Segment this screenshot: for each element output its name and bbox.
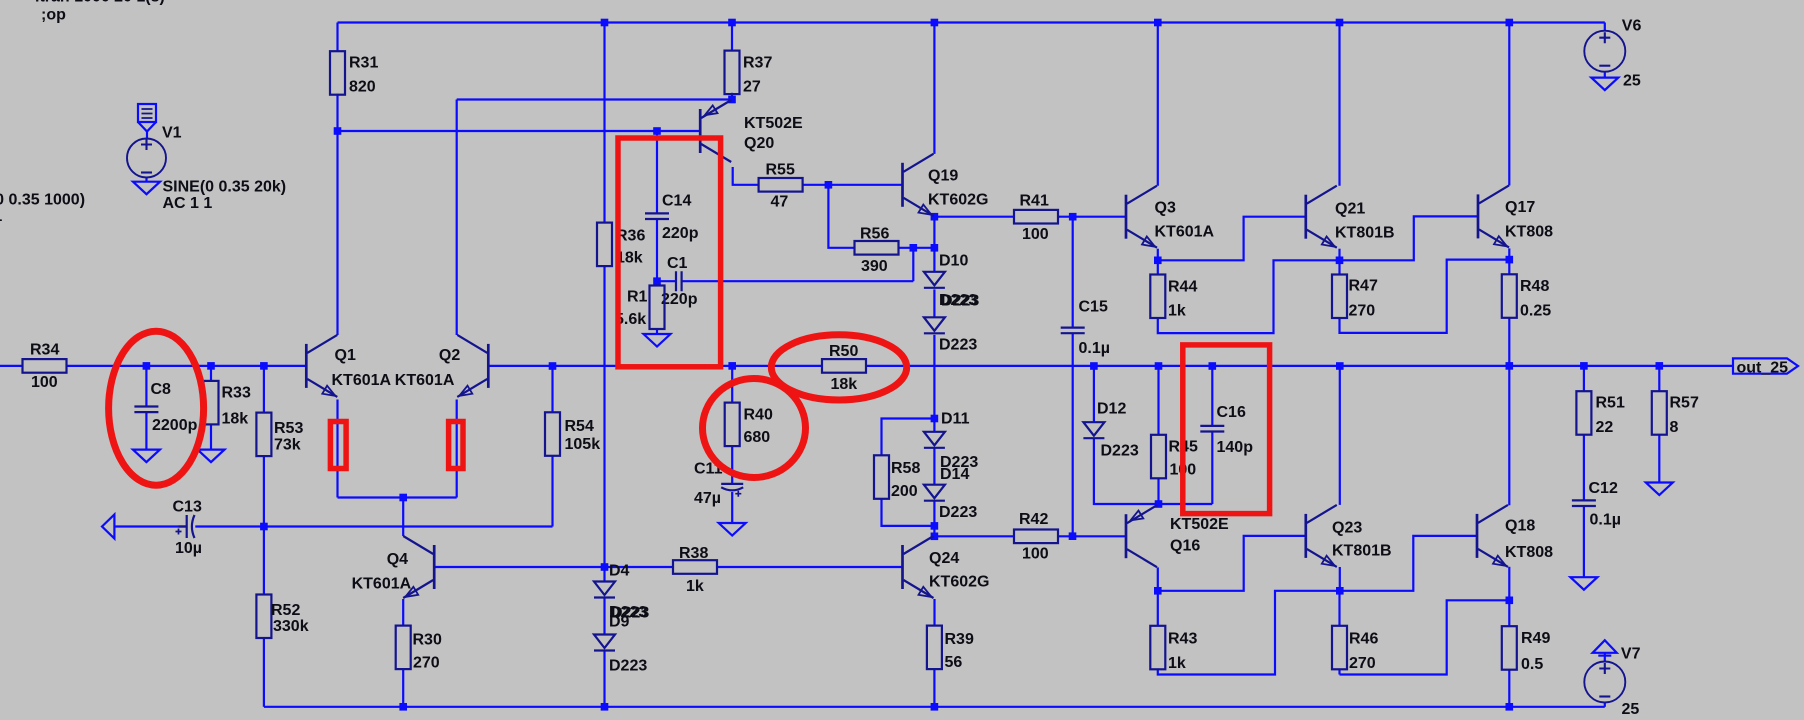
resistor R40 — [725, 403, 740, 447]
wire Q23 emitter stub — [1339, 567, 1341, 591]
wire Q3 emitter stub — [1157, 249, 1159, 261]
resistor R57 — [1652, 391, 1667, 435]
label 100 — [31, 374, 58, 391]
wire R48 top — [1508, 260, 1510, 275]
wire R44 bottom to Q21 emitter — [1158, 260, 1340, 333]
wire Q2 collector to Q20 emitter — [457, 98, 732, 100]
junction R39 / bottom rail — [931, 703, 939, 711]
svg-text:140p: 140p — [1217, 439, 1254, 456]
wire C16 top — [1211, 366, 1213, 426]
svg-text:D223: D223 — [939, 504, 977, 521]
svg-text:out_25: out_25 — [1737, 359, 1789, 376]
wire C8 top — [145, 366, 147, 407]
svg-text:Q24: Q24 — [929, 550, 959, 567]
junction R33 — [207, 362, 215, 370]
wire V6 top stub — [1604, 23, 1606, 32]
wire R57 to ground — [1658, 435, 1660, 483]
label AC 1 1 — [0, 208, 2, 225]
junction C14 tap — [653, 127, 661, 135]
wire D9 to bottom rail — [603, 651, 605, 707]
wire R33 top — [210, 366, 212, 381]
resistor R38 — [673, 560, 717, 574]
svg-text:V6: V6 — [1622, 18, 1642, 35]
resistor R56 — [855, 241, 899, 255]
svg-text:D9: D9 — [609, 614, 630, 631]
wire D12 top — [1093, 366, 1095, 422]
junction R56 / C1 — [910, 244, 918, 252]
svg-text:R49: R49 — [1521, 630, 1550, 647]
capacitor C8 — [134, 407, 158, 413]
resistor R33 — [204, 381, 219, 425]
svg-text:C14: C14 — [662, 193, 691, 210]
label out_25 — [1737, 359, 1789, 376]
wire C15 bottom to R42 node — [1072, 333, 1074, 536]
wire R57 top — [1658, 366, 1660, 391]
junction Q23 emitter / R46 — [1336, 587, 1344, 595]
label R55 — [766, 162, 795, 179]
resistor R42 — [1014, 530, 1058, 544]
resistor R47 — [1332, 275, 1347, 319]
junction top rail / Q19 — [931, 19, 939, 27]
label 73k — [274, 437, 301, 454]
wire R37 bottom — [731, 93, 733, 100]
label 18k — [831, 376, 858, 393]
label R34 — [30, 342, 59, 359]
transistor Q2 NPN KT601A — [457, 335, 488, 397]
svg-text:390: 390 — [861, 258, 888, 275]
junction Q19 emitter — [931, 213, 939, 221]
net flag input arrow — [102, 515, 114, 539]
junction C16 — [1209, 362, 1217, 370]
label 220p — [661, 291, 698, 308]
svg-text:C15: C15 — [1079, 299, 1108, 316]
svg-text:22: 22 — [1596, 419, 1614, 436]
junction R51 — [1580, 362, 1588, 370]
label R46 — [1349, 631, 1378, 648]
wire R46 top — [1338, 591, 1340, 626]
label 27 — [743, 79, 761, 96]
label 47µ — [694, 490, 721, 507]
svg-text:25: 25 — [1623, 73, 1641, 90]
junction R49 / bottom rail — [1506, 703, 1514, 711]
capacitor C12 — [1572, 500, 1596, 506]
wire C14 top — [656, 131, 658, 213]
wire Q18 emitter to R46 bottom — [1340, 600, 1510, 674]
svg-text:1k: 1k — [686, 578, 704, 595]
label KT801B — [1332, 543, 1392, 560]
label KT801B — [1335, 225, 1395, 242]
label 22 — [1596, 419, 1614, 436]
annotation red ellipse C8 — [109, 331, 204, 485]
junction R40 — [728, 362, 736, 370]
svg-text:R47: R47 — [1349, 278, 1378, 295]
label 0.1µ — [1590, 512, 1621, 529]
label SINE(0 0.35 20k) — [163, 179, 287, 196]
resistor R34 — [23, 359, 67, 373]
label KT601A — [332, 372, 392, 389]
svg-text:D223: D223 — [941, 292, 979, 309]
net flag out_25 — [1733, 358, 1798, 373]
svg-text:KT601A: KT601A — [332, 372, 392, 389]
label KT601A — [395, 372, 455, 389]
label KT808 — [1505, 224, 1553, 241]
label 270 — [1349, 655, 1376, 672]
svg-text:D223: D223 — [609, 657, 647, 674]
label 390 — [861, 258, 888, 275]
junction top rail / Q17 — [1506, 19, 1514, 27]
label 1k — [1168, 303, 1186, 320]
svg-text:C13: C13 — [173, 499, 202, 516]
wire C13 left — [114, 525, 185, 527]
wire Q21 collector riser — [1338, 23, 1340, 186]
wire Q19 emitter to D10 — [933, 217, 935, 272]
label R48 — [1520, 278, 1549, 295]
diode D12 D223 — [1083, 422, 1104, 438]
svg-text:KT502E: KT502E — [1170, 516, 1229, 533]
wire C16 bottom — [1211, 432, 1213, 505]
label D223 — [940, 454, 978, 471]
label R39 — [945, 631, 974, 648]
label 330k — [273, 618, 309, 635]
label Q23 — [1332, 520, 1362, 537]
svg-text:R34: R34 — [30, 342, 59, 359]
label KT602G — [929, 574, 989, 591]
label R31 — [349, 55, 378, 72]
label R37 — [743, 55, 772, 72]
svg-text:56: 56 — [945, 654, 963, 671]
wire R31 top — [336, 23, 338, 52]
label D4 — [609, 562, 630, 579]
label 8 — [1670, 419, 1679, 436]
diode D14 D223 — [924, 485, 945, 501]
resistor R30 — [396, 626, 411, 670]
svg-text:R39: R39 — [945, 631, 974, 648]
wire R48 bottom through output rail to Q18 collector — [1508, 318, 1510, 505]
svg-text:KT601A: KT601A — [352, 576, 412, 593]
label SINE(0 0.35 1000) — [0, 191, 85, 208]
resistor R52 — [256, 595, 271, 639]
svg-text:105k: 105k — [565, 436, 601, 453]
wire Q2 emitter drop — [456, 400, 458, 498]
label C13 — [173, 499, 202, 516]
junction Q4 base / D4 / R38 — [601, 563, 609, 571]
wire Q19 collector riser — [933, 23, 935, 154]
svg-text:.tran 1000 20 1(s): .tran 1000 20 1(s) — [35, 0, 165, 5]
label 220p — [662, 225, 699, 242]
svg-text:R42: R42 — [1019, 511, 1048, 528]
label 100 — [1170, 462, 1197, 479]
label .tran 1000 20 1(s) — [35, 0, 165, 5]
wire V7 flag stem — [1604, 653, 1606, 662]
svg-text:KT801B: KT801B — [1332, 543, 1392, 560]
wire Q23 emitter to Q18 base — [1340, 536, 1477, 591]
label 2200p — [152, 417, 198, 434]
label R53 — [274, 420, 303, 437]
resistor R45 — [1151, 435, 1166, 479]
label 100 — [1022, 546, 1049, 563]
wire R54 bottom riser — [551, 456, 553, 527]
capacitor C14 — [645, 213, 669, 219]
svg-text:KT808: KT808 — [1505, 544, 1553, 561]
resistor R31 — [330, 51, 345, 94]
junction top rail / Q21 — [1336, 19, 1344, 27]
annotation red rect C16 — [1183, 345, 1270, 514]
label 25 — [1623, 73, 1641, 90]
label R36 — [616, 228, 645, 245]
label R57 — [1670, 395, 1699, 412]
junction Q23 collector — [1336, 362, 1344, 370]
label R58 — [891, 460, 920, 477]
wire D10 to D13 — [933, 289, 935, 317]
resistor R54 — [545, 412, 560, 456]
svg-text:100: 100 — [1022, 546, 1049, 563]
svg-text:Q1: Q1 — [335, 347, 356, 364]
ground C8 — [133, 450, 160, 463]
svg-text:R48: R48 — [1520, 278, 1549, 295]
svg-text:KT602G: KT602G — [929, 574, 989, 591]
label 18k — [616, 250, 643, 267]
resistor R51 — [1576, 391, 1591, 435]
label C12 — [1589, 480, 1618, 497]
wire R55 to Q19 base — [803, 184, 903, 186]
label Q19 — [928, 168, 958, 185]
wire C13 to R54 bottom — [195, 525, 552, 527]
svg-text:R37: R37 — [743, 55, 772, 72]
junction Q16 collector / R43 — [1154, 587, 1162, 595]
voltage source V1 — [127, 139, 166, 178]
diode D9 D223 — [594, 635, 615, 651]
label AC 1 1 — [163, 195, 213, 212]
label 1k — [1168, 655, 1186, 672]
svg-text:18k: 18k — [222, 411, 249, 428]
junction R30 / bottom rail — [399, 703, 407, 711]
wire R51 to C12 — [1583, 435, 1585, 501]
label 100 — [1022, 226, 1049, 243]
label C11 — [694, 461, 723, 478]
resistor R49 — [1502, 626, 1517, 670]
wire Q3 emitter to Q21 base — [1158, 217, 1306, 261]
wire R58 top loop — [882, 419, 935, 456]
label R40 — [744, 406, 773, 423]
junction top rail / bias column — [601, 19, 609, 27]
label D10 — [939, 253, 968, 270]
wire tail to Q4 collector — [402, 498, 404, 537]
svg-text:KT601A: KT601A — [1155, 224, 1215, 241]
wire C15 top — [1072, 217, 1074, 328]
label KT502E — [744, 115, 803, 132]
svg-text:2200p: 2200p — [152, 417, 198, 434]
svg-text:47: 47 — [771, 194, 789, 211]
wire bias column upper — [603, 23, 605, 223]
wire Q21 emitter stub — [1338, 249, 1340, 261]
transistor Q4 NPN KT601A — [403, 536, 434, 598]
svg-text:R50: R50 — [829, 343, 858, 360]
svg-text:Q18: Q18 — [1505, 518, 1535, 535]
svg-text:270: 270 — [413, 655, 440, 672]
wire Q17 collector riser — [1508, 23, 1510, 186]
svg-text:330k: 330k — [273, 618, 309, 635]
svg-text:Q17: Q17 — [1505, 199, 1535, 216]
label Q1 — [335, 347, 356, 364]
label V6 — [1622, 18, 1642, 35]
diode D13 D223 — [924, 317, 945, 333]
wire V6 ground stub — [1604, 72, 1606, 78]
label D223 — [609, 604, 647, 621]
junction Q3 emitter / R44 — [1154, 257, 1162, 265]
transistor Q18 NPN KT808 — [1477, 505, 1508, 567]
label D223 — [611, 605, 649, 622]
wire D4 to D9 — [603, 598, 605, 635]
label 25 — [1622, 701, 1640, 718]
wire Q4 emitter to R30 — [402, 599, 404, 626]
svg-text:R38: R38 — [679, 545, 708, 562]
svg-text:270: 270 — [1349, 655, 1376, 672]
junction R37 / Q20 emitter — [728, 96, 736, 104]
wire Q4 base to bias node — [434, 566, 604, 568]
annotation red rect C14/C1/R1 — [618, 138, 721, 367]
label R51 — [1596, 395, 1625, 412]
svg-text:KT502E: KT502E — [744, 115, 803, 132]
svg-text:0.25: 0.25 — [1520, 303, 1551, 320]
label 10µ — [175, 540, 202, 557]
junction R45 — [1155, 362, 1163, 370]
wire bias node to R38 — [605, 566, 674, 568]
label Q4 — [387, 551, 408, 568]
label D11 — [941, 411, 970, 428]
svg-text:D14: D14 — [940, 466, 969, 483]
label 47 — [771, 194, 789, 211]
wire diode chain crossing rail — [933, 335, 935, 419]
junction Q21 emitter / R47 — [1336, 257, 1344, 265]
junction R56 / diode chain — [931, 244, 939, 252]
label R30 — [413, 632, 442, 649]
wire R45 top — [1157, 366, 1159, 435]
svg-text:270: 270 — [1349, 303, 1376, 320]
ground C11 — [719, 523, 746, 536]
svg-text:D4: D4 — [609, 562, 630, 579]
net flag above V1 — [138, 104, 156, 132]
label Q24 — [929, 550, 959, 567]
label Q2 — [439, 347, 460, 364]
svg-text:27: 27 — [743, 79, 761, 96]
wire R52 bottom — [263, 638, 265, 707]
svg-text:R57: R57 — [1670, 395, 1699, 412]
label 680 — [744, 429, 771, 446]
wire Q23 collector riser — [1339, 366, 1341, 505]
junction R54 — [549, 362, 557, 370]
svg-text:8: 8 — [1670, 419, 1679, 436]
svg-text:18k: 18k — [831, 376, 858, 393]
label 0.1µ — [1079, 340, 1110, 357]
diode D4 D223 — [594, 582, 615, 598]
wire Q24 emitter to R39 — [933, 599, 935, 626]
junction R55 / R56 — [825, 181, 833, 189]
label D223 — [939, 337, 977, 354]
svg-text:V1: V1 — [162, 125, 182, 142]
label 1k — [686, 578, 704, 595]
wire emitters join — [338, 496, 457, 498]
junction diff pair tail — [399, 494, 407, 502]
label D12 — [1097, 401, 1126, 418]
svg-text:Q2: Q2 — [439, 347, 460, 364]
resistor R46 — [1332, 626, 1347, 670]
wire C8 bottom — [145, 412, 147, 450]
label Q20 — [744, 135, 774, 152]
label 56 — [945, 654, 963, 671]
wire V1 flag stub — [146, 132, 148, 139]
svg-text:Q3: Q3 — [1155, 200, 1176, 217]
label ;op — [41, 7, 66, 24]
wire node to R56 — [828, 185, 854, 248]
svg-text:100: 100 — [1022, 226, 1049, 243]
svg-text:25: 25 — [1622, 701, 1640, 718]
voltage source V6 — [1584, 31, 1625, 72]
svg-text:C8: C8 — [151, 381, 172, 398]
wire R34 to Q1 base — [68, 365, 307, 367]
wire R53 top — [263, 366, 265, 413]
label D223 — [1101, 443, 1139, 460]
transistor Q21 NPN KT801B — [1306, 186, 1337, 248]
svg-text:47µ: 47µ — [694, 490, 721, 507]
label Q3 — [1155, 200, 1176, 217]
svg-text:1k: 1k — [1168, 655, 1186, 672]
label R33 — [222, 385, 251, 402]
junction D11 / R58 — [931, 415, 939, 423]
wire R56 right — [899, 247, 935, 249]
svg-text:D223: D223 — [939, 337, 977, 354]
svg-text:0.5: 0.5 — [1521, 656, 1543, 673]
transistor Q23 NPN KT801B — [1306, 505, 1337, 567]
annotation red ellipse R50 — [771, 335, 906, 400]
label 0.25 — [1520, 303, 1551, 320]
svg-text:220p: 220p — [662, 225, 699, 242]
transistor Q20 PNP KT502E — [700, 100, 731, 162]
wire R54 top — [551, 366, 553, 412]
junction Q17 emitter / R48 — [1506, 256, 1514, 264]
wire R46 bottom stub — [1338, 670, 1340, 675]
svg-text:KT601A: KT601A — [395, 372, 455, 389]
svg-text:0.1µ: 0.1µ — [1590, 512, 1621, 529]
wire D4 top — [603, 567, 605, 582]
svg-text:220p: 220p — [661, 291, 698, 308]
label R49 — [1521, 630, 1550, 647]
svg-text:1k: 1k — [1168, 303, 1186, 320]
diode D11 D223 — [924, 432, 945, 448]
wire output rail — [867, 365, 1734, 367]
label D223 — [941, 292, 979, 309]
net flag above V7 — [1593, 640, 1617, 655]
svg-text:100: 100 — [31, 374, 58, 391]
svg-text:R31: R31 — [349, 55, 378, 72]
junction R48 / Q18 collector — [1506, 362, 1514, 370]
label Q18 — [1505, 518, 1535, 535]
wire R40 top — [731, 366, 733, 403]
label D9 — [609, 614, 630, 631]
wire Q18 emitter stub — [1508, 567, 1510, 601]
wire R41 to Q3 base — [1058, 216, 1126, 218]
wire Q3 collector riser — [1157, 23, 1159, 186]
svg-text:C16: C16 — [1217, 404, 1246, 421]
junction top rail / Q3 — [1154, 19, 1162, 27]
wire C11 to ground — [731, 492, 733, 523]
wire R47 bottom to Q17 emitter — [1340, 260, 1510, 333]
svg-text:680: 680 — [744, 429, 771, 446]
wire top +25V rail — [338, 21, 1605, 23]
label 105k — [565, 436, 601, 453]
label KT601A — [352, 576, 412, 593]
capacitor C16 — [1200, 426, 1224, 432]
junction C8 — [143, 362, 151, 370]
